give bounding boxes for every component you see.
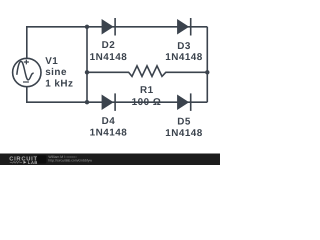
- watermark logo LAB: [24, 161, 27, 164]
- svg-text:1N4148: 1N4148: [90, 128, 128, 139]
- voltage source V1: [13, 58, 41, 86]
- diode D5: [177, 94, 189, 110]
- svg-text:D2: D2: [102, 40, 116, 51]
- svg-text:100 Ω: 100 Ω: [132, 97, 162, 108]
- svg-text:1N4148: 1N4148: [165, 128, 203, 139]
- V1 sine wave: [17, 61, 34, 80]
- svg-text:V1: V1: [45, 56, 58, 67]
- watermark bar: [0, 154, 220, 166]
- svg-text:1N4148: 1N4148: [165, 52, 203, 63]
- wire bottom rail: [27, 87, 208, 103]
- cathode bar D5: [190, 93, 192, 111]
- cathode bar D4: [114, 93, 116, 111]
- svg-text:1 kHz: 1 kHz: [45, 79, 73, 90]
- svg-text:http://circuitlab.com/c/nbbfyw: http://circuitlab.com/c/nbbfyw: [48, 159, 92, 163]
- diode D4: [102, 94, 114, 110]
- cathode bar D2: [114, 18, 116, 36]
- node dot bottom-middle: [85, 100, 89, 104]
- wire middle bus: [86, 27, 88, 102]
- wire top rail: [27, 27, 208, 59]
- svg-text:sine: sine: [45, 67, 67, 78]
- node dot middle-left: [85, 70, 89, 74]
- cathode bar D3: [190, 18, 192, 36]
- watermark avatar box: [37, 155, 46, 163]
- wire right bus: [206, 27, 208, 102]
- svg-text:D5: D5: [177, 116, 191, 127]
- svg-text:1N4148: 1N4148: [90, 52, 128, 63]
- resistor R1: [87, 66, 207, 77]
- svg-text:LAB: LAB: [28, 160, 38, 165]
- V1 minus polarity mark: [23, 81, 29, 83]
- svg-text:D3: D3: [177, 41, 191, 52]
- svg-text:D4: D4: [102, 116, 116, 127]
- diode D3: [177, 19, 189, 35]
- svg-text:R1: R1: [140, 85, 154, 96]
- V1 plus polarity mark: [24, 60, 29, 65]
- node dot middle-right: [205, 70, 209, 74]
- watermark logo resistor line: [10, 161, 22, 163]
- diode D2: [102, 19, 114, 35]
- node dot top-middle: [85, 25, 89, 29]
